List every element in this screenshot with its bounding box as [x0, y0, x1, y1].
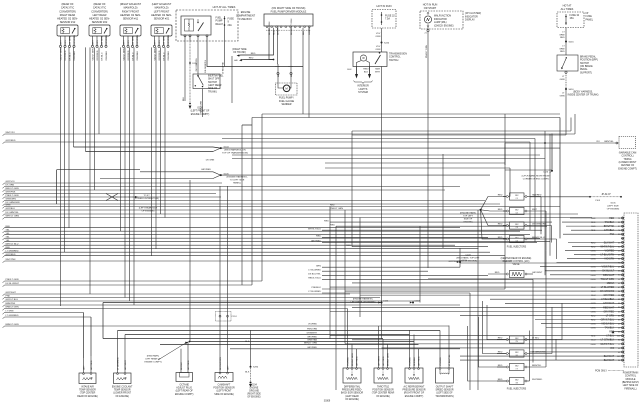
- svg-text:PRESSURE SENSOR: PRESSURE SENSOR: [403, 390, 426, 392]
- svg-text:INJ: INJ: [515, 224, 518, 226]
- svg-text:PNK/BLK: PNK/BLK: [312, 287, 322, 289]
- engine compartment fuse box (dashed): [176, 10, 238, 41]
- svg-text:TAN/BLK: TAN/BLK: [605, 327, 615, 330]
- upper-middle horizontal wire runs: [222, 114, 571, 170]
- wire LT GRN/RED with S216: [559, 28, 574, 56]
- svg-text:HEATED O2 SEN-: HEATED O2 SEN-: [57, 17, 78, 20]
- svg-text:MEDIA: MEDIA: [607, 282, 615, 285]
- module long wires down: [302, 33, 304, 114]
- svg-text:GRY/RED: GRY/RED: [97, 50, 99, 60]
- svg-text:FUEL PUMP DRIVER MODULE: FUEL PUMP DRIVER MODULE: [271, 11, 307, 14]
- svg-text:INJ: INJ: [515, 338, 518, 340]
- svg-text:20A: 20A: [228, 24, 233, 27]
- svg-text:WHT/LT BLU: WHT/LT BLU: [600, 245, 614, 248]
- svg-text:GRN: GRN: [316, 265, 321, 267]
- svg-text:LT GRN: LT GRN: [606, 314, 615, 317]
- svg-text:TO S?: TO S?: [143, 195, 150, 197]
- svg-text:RED: RED: [498, 237, 503, 239]
- svg-text:(CHECK ENGINE): (CHECK ENGINE): [434, 24, 454, 27]
- svg-text:OF ENGINE): OF ENGINE): [115, 396, 129, 398]
- svg-text:RED: RED: [498, 209, 503, 211]
- svg-text:VIO/: VIO/: [376, 33, 381, 35]
- fuel pump and fuel gauge sender: [276, 83, 298, 106]
- mid labels on long C-band wires: [330, 205, 343, 211]
- svg-text:GRY/RED: GRY/RED: [74, 34, 76, 44]
- module wire RED: [273, 28, 275, 33]
- svg-text:30309: 30309: [324, 401, 331, 403]
- svg-text:VIO/RED: VIO/RED: [604, 249, 614, 252]
- wire relay pin down right: [207, 37, 303, 67]
- svg-text:SIDE OF: SIDE OF: [464, 218, 473, 220]
- svg-text:GRN/WHT: GRN/WHT: [307, 333, 318, 335]
- svg-text:DK BLU/ORN: DK BLU/ORN: [220, 357, 222, 370]
- svg-text:RED: RED: [316, 236, 321, 238]
- svg-text:CORNER OF ENG COMPT): CORNER OF ENG COMPT): [523, 178, 550, 180]
- svg-text:(LEFT FRONT: (LEFT FRONT: [217, 391, 232, 393]
- svg-text:VIO/RED: VIO/RED: [308, 324, 317, 326]
- svg-text:TAN/LT GRN: TAN/LT GRN: [601, 278, 615, 281]
- svg-text:C103: C103: [465, 255, 471, 257]
- svg-text:GRY/RED: GRY/RED: [137, 34, 139, 44]
- svg-text:RED: RED: [609, 217, 614, 220]
- svg-text:TO LEFT SIDE: TO LEFT SIDE: [230, 180, 245, 182]
- wire crossover with splice note: [106, 194, 159, 201]
- svg-text:ENGINE): ENGINE): [464, 221, 473, 223]
- svg-text:BRN/YEL: BRN/YEL: [532, 365, 542, 367]
- svg-text:RED: RED: [330, 224, 335, 226]
- svg-text:BRN/PNK: BRN/PNK: [604, 225, 615, 228]
- svg-text:WHT/LT BLU: WHT/LT BLU: [6, 243, 19, 245]
- svg-text:VIO: VIO: [596, 141, 600, 143]
- svg-text:RED/LT BLU: RED/LT BLU: [308, 278, 321, 280]
- svg-text:GRY/RED: GRY/RED: [6, 254, 16, 256]
- svg-text:SWITCH: SWITCH: [580, 63, 589, 65]
- svg-text:OF ENGINE): OF ENGINE): [345, 399, 359, 401]
- svg-text:RED: RED: [498, 351, 503, 353]
- svg-text:GRY/BLK: GRY/BLK: [604, 229, 615, 232]
- svg-text:GRY/RED: GRY/RED: [201, 169, 211, 171]
- heated O2 sensor HO2S-2: [89, 3, 110, 60]
- svg-text:GRN/: GRN/: [559, 34, 565, 36]
- svg-text:GRY/RED: GRY/RED: [603, 310, 614, 313]
- svg-text:SWITCH: SWITCH: [389, 59, 399, 62]
- svg-text:SIDE OF ENGINE): SIDE OF ENGINE): [459, 260, 477, 262]
- svg-text:DK GRN: DK GRN: [69, 36, 71, 45]
- splice S105: [100, 160, 490, 185]
- svg-text:ENGINE COMPT): ENGINE COMPT): [144, 361, 161, 363]
- svg-text:(RIGHT EXHAUST: (RIGHT EXHAUST: [120, 3, 142, 6]
- svg-text:RED: RED: [609, 331, 614, 334]
- svg-text:RELAY: RELAY: [216, 23, 224, 26]
- svg-text:(TOP CENTER: (TOP CENTER: [80, 393, 96, 395]
- svg-text:FUSE 32: FUSE 32: [385, 15, 395, 18]
- PCM pin rows: [591, 217, 624, 362]
- svg-text:LT GRN: LT GRN: [6, 311, 14, 313]
- svg-text:GRN/ORN: GRN/ORN: [6, 199, 17, 201]
- svg-text:S104: S104: [224, 146, 230, 148]
- svg-text:LT BLU: LT BLU: [532, 337, 540, 339]
- svg-text:WHT/RED: WHT/RED: [532, 379, 543, 381]
- svg-text:INJ: INJ: [515, 379, 518, 381]
- svg-text:TOP LEFT: TOP LEFT: [463, 215, 474, 217]
- svg-text:GRY/WHT: GRY/WHT: [603, 302, 615, 305]
- svg-text:7.5A: 7.5A: [385, 18, 390, 21]
- svg-text:SYSTEM: SYSTEM: [358, 91, 368, 94]
- svg-text:THROTTLE: THROTTLE: [377, 387, 390, 389]
- svg-text:SPEED SENSOR: SPEED SENSOR: [435, 390, 453, 392]
- svg-text:GRY/RED: GRY/RED: [356, 356, 358, 366]
- svg-text:GRY/BLK: GRY/BLK: [6, 208, 16, 210]
- svg-text:(RIGHT SIDE: (RIGHT SIDE: [247, 394, 261, 396]
- svg-text:WHT: WHT: [92, 39, 94, 45]
- svg-text:VIO/RED: VIO/RED: [409, 357, 411, 366]
- engine coolant temperature sensor: [112, 331, 133, 398]
- svg-text:TRANSMISSION: TRANSMISSION: [389, 53, 407, 56]
- svg-text:SUPPORT): SUPPORT): [580, 72, 592, 74]
- svg-text:(REAR OF: (REAR OF: [61, 3, 73, 6]
- wire group top right area: [504, 143, 506, 165]
- svg-text:ENGINE: ENGINE: [241, 11, 251, 14]
- svg-text:BLK/WHT: BLK/WHT: [604, 241, 615, 244]
- fuel injector 6: [497, 350, 552, 357]
- svg-text:PNK: PNK: [6, 296, 11, 298]
- wire corner x57: [57, 170, 140, 204]
- svg-text:(ON RIGHT SIDE OF TRUNK): (ON RIGHT SIDE OF TRUNK): [272, 7, 306, 10]
- svg-text:I/P: I/P: [586, 12, 589, 15]
- svg-text:GRY/WHT: GRY/WHT: [125, 359, 127, 370]
- svg-text:BLK: BLK: [364, 71, 369, 73]
- svg-text:GRY/LT BLU: GRY/LT BLU: [6, 299, 19, 301]
- svg-text:ORN: ORN: [375, 49, 380, 51]
- svg-text:BRN/LT GRN: BRN/LT GRN: [387, 353, 389, 366]
- fuel injector 7: [497, 363, 546, 370]
- svg-text:INDICATOR: INDICATOR: [434, 18, 447, 21]
- svg-text:WHT: WHT: [154, 39, 156, 45]
- svg-text:WHT: WHT: [60, 39, 62, 45]
- svg-text:GRY/RED: GRY/RED: [418, 356, 420, 366]
- instrument cluster (dashed) with MIL: [420, 11, 481, 29]
- inline connector (dashed) near octane: [216, 312, 232, 322]
- svg-text:GRY/LT BLU: GRY/LT BLU: [601, 318, 615, 321]
- svg-text:TAN: TAN: [610, 233, 615, 236]
- wires to fuel pump: [276, 33, 294, 85]
- svg-text:S416: S416: [569, 89, 575, 91]
- svg-text:DK GRN/ORN: DK GRN/ORN: [532, 223, 546, 225]
- svg-text:BRN/WHT: BRN/WHT: [603, 274, 615, 277]
- svg-text:(LOWER FRONT: (LOWER FRONT: [619, 162, 637, 164]
- fuel injector 2: [498, 207, 546, 214]
- bottom injector feed verticals: [468, 301, 507, 381]
- svg-text:INJ: INJ: [515, 352, 518, 354]
- svg-text:DK BLU: DK BLU: [101, 52, 103, 60]
- svg-text:CONVERTER): CONVERTER): [59, 10, 76, 13]
- svg-text:C135: C135: [383, 300, 389, 302]
- svg-text:GRY/RED: GRY/RED: [65, 50, 67, 60]
- svg-text:DK GRN/YEL: DK GRN/YEL: [6, 212, 20, 214]
- svg-text:RED: RED: [346, 245, 351, 247]
- jumper above PCM: [589, 194, 622, 210]
- svg-text:FUEL GAUGE: FUEL GAUGE: [279, 100, 295, 103]
- svg-text:DK GRN/VIO: DK GRN/VIO: [600, 290, 614, 293]
- svg-text:PNK/LT GRN: PNK/LT GRN: [6, 279, 19, 281]
- svg-text:PNK/ORN: PNK/ORN: [307, 329, 317, 331]
- a/c refrigerant pressure sensor: [403, 330, 426, 398]
- svg-text:PANEL: PANEL: [586, 18, 594, 21]
- svg-text:TEMP SENSOR: TEMP SENSOR: [114, 390, 131, 392]
- svg-text:COMPARTMENT: COMPARTMENT: [236, 14, 256, 17]
- svg-text:GRY/RED: GRY/RED: [307, 337, 317, 339]
- svg-text:INJ: INJ: [515, 209, 518, 211]
- svg-text:GRY/RED: GRY/RED: [307, 347, 317, 349]
- svg-text:LT GRN/RED: LT GRN/RED: [6, 315, 19, 317]
- svg-text:LT BLU/YEL: LT BLU/YEL: [449, 354, 451, 366]
- svg-text:GROUND: GROUND: [249, 391, 259, 393]
- svg-text:(LEFT SIDE OF: (LEFT SIDE OF: [436, 393, 453, 395]
- svg-text:OF ENGINE): OF ENGINE): [142, 211, 155, 213]
- svg-text:BLK/WHT: BLK/WHT: [604, 359, 615, 362]
- svg-text:GRY/RED: GRY/RED: [188, 360, 190, 370]
- svg-text:BRN/LT BLU: BRN/LT BLU: [532, 237, 545, 239]
- svg-text:CONTROL: CONTROL: [625, 376, 637, 378]
- svg-text:G105: G105: [610, 203, 616, 205]
- svg-text:LT BLU/PNK: LT BLU/PNK: [222, 61, 224, 73]
- svg-text:INSIDE CENTER OF TRUNK): INSIDE CENTER OF TRUNK): [568, 95, 599, 97]
- svg-text:LEFT REAR: LEFT REAR: [93, 14, 107, 17]
- svg-text:DK GRN: DK GRN: [206, 160, 215, 162]
- svg-text:GRY/RED: GRY/RED: [383, 356, 385, 366]
- inline connector markers C-row: [351, 212, 481, 304]
- octane adjust plug: [175, 342, 194, 396]
- svg-text:SWITCH: SWITCH: [208, 82, 217, 84]
- svg-text:BRN/LT GRN: BRN/LT GRN: [6, 307, 19, 309]
- camshaft position sensor: [213, 357, 235, 396]
- wire from IFS down: [202, 89, 204, 118]
- svg-text:WHT/LT BLU: WHT/LT BLU: [308, 228, 321, 230]
- svg-text:RED: RED: [498, 379, 503, 381]
- svg-text:PRESSURE FEED-: PRESSURE FEED-: [342, 390, 362, 392]
- svg-text:OF TRUNK): OF TRUNK): [233, 51, 246, 54]
- svg-text:BLK: BLK: [245, 372, 250, 374]
- svg-text:(RIGHT FRONT OF: (RIGHT FRONT OF: [404, 393, 425, 395]
- svg-text:(LOWER FRONT: (LOWER FRONT: [113, 393, 131, 395]
- svg-text:VIO/GRN: VIO/GRN: [604, 258, 614, 261]
- splice S104: [74, 146, 561, 154]
- svg-text:RIGHT FRONT: RIGHT FRONT: [122, 10, 140, 13]
- svg-text:RED: RED: [251, 53, 256, 55]
- svg-text:INJ: INJ: [515, 365, 518, 367]
- svg-text:BRN/YEL: BRN/YEL: [604, 141, 614, 143]
- svg-text:BRN/LT GRN: BRN/LT GRN: [304, 343, 317, 345]
- svg-text:OR START: OR START: [424, 7, 437, 10]
- svg-text:GRY: GRY: [159, 40, 161, 45]
- idle air control valve: [488, 257, 543, 278]
- svg-text:INJ: INJ: [515, 195, 518, 197]
- svg-text:ENGINE COMPT): ENGINE COMPT): [175, 394, 194, 396]
- svg-text:GRY/WHT: GRY/WHT: [532, 272, 543, 274]
- svg-text:GRY/RED: GRY/RED: [6, 140, 16, 142]
- svg-text:ENGINE: ENGINE: [250, 388, 259, 390]
- svg-text:PNK/LT GRN: PNK/LT GRN: [426, 45, 428, 58]
- svg-text:DK BLU/WHT: DK BLU/WHT: [6, 283, 20, 285]
- svg-text:TIMING: TIMING: [623, 159, 631, 161]
- svg-text:FUEL PUMP /: FUEL PUMP /: [279, 97, 294, 100]
- svg-text:LIGHTS: LIGHTS: [359, 88, 368, 91]
- svg-text:PCM ONLY: PCM ONLY: [595, 370, 607, 372]
- svg-text:S216: S216: [569, 41, 575, 43]
- variable camshaft timing solenoid (dashed): [618, 137, 637, 171]
- svg-text:C137: C137: [415, 300, 421, 302]
- svg-text:TAN/BLK: TAN/BLK: [605, 221, 615, 224]
- svg-text:WHT/LT BLU: WHT/LT BLU: [600, 343, 614, 346]
- svg-text:WHT: WHT: [123, 39, 125, 45]
- svg-text:SENSOR #21: SENSOR #21: [154, 17, 170, 20]
- inertia fuel shutoff switch: [193, 74, 224, 93]
- svg-text:MANIFOLD): MANIFOLD): [124, 7, 138, 10]
- svg-text:INDICATOR: INDICATOR: [465, 15, 478, 18]
- fuse 7.5A (dashed box): [372, 10, 396, 29]
- wires into PCM pins: [330, 218, 621, 360]
- svg-text:GRY: GRY: [83, 365, 85, 370]
- svg-text:GRN/: GRN/: [559, 48, 565, 50]
- svg-text:PNK/LT GRN: PNK/LT GRN: [330, 208, 343, 210]
- module wire GRN/VIO: [308, 28, 310, 33]
- wire fuse down: [224, 28, 226, 67]
- junction marker on RED row: [612, 331, 615, 334]
- svg-text:TEMP SENSOR: TEMP SENSOR: [79, 390, 96, 392]
- svg-text:DISPLAY: DISPLAY: [465, 19, 475, 22]
- svg-text:CONVERTER): CONVERTER): [91, 10, 108, 13]
- svg-text:RED: RED: [498, 194, 503, 196]
- svg-text:(POWER DISTRIBUTION): (POWER DISTRIBUTION): [134, 198, 159, 200]
- svg-text:RED/LT GRN: RED/LT GRN: [6, 188, 19, 190]
- svg-text:GRY/RED: GRY/RED: [311, 241, 321, 243]
- svg-text:ENGINE COMPT): ENGINE COMPT): [618, 168, 637, 170]
- svg-text:GRY: GRY: [97, 40, 99, 45]
- svg-text:VIO/RED: VIO/RED: [347, 357, 349, 366]
- wire BLK relay pin: [183, 37, 185, 101]
- connector C/PLR note: [522, 170, 553, 181]
- svg-text:FUEL INJECTORS: FUEL INJECTORS: [507, 389, 527, 391]
- svg-text:LT BLU/RED: LT BLU/RED: [308, 291, 321, 293]
- svg-text:GRY/PNK: GRY/PNK: [6, 192, 16, 194]
- wire RED to right side of trunk arrow: [232, 33, 274, 62]
- svg-text:GRN: GRN: [560, 79, 565, 81]
- module wire BLK: [302, 28, 304, 33]
- svg-text:LT GRN/ORN: LT GRN/ORN: [532, 351, 546, 353]
- svg-text:WHT: WHT: [375, 71, 381, 73]
- svg-text:OF ENGINE): OF ENGINE): [247, 397, 260, 399]
- svg-text:(LEFT EXHAUST: (LEFT EXHAUST: [152, 3, 172, 6]
- svg-text:BRN/LT GRN: BRN/LT GRN: [352, 353, 354, 366]
- svg-text:(REAR OF: (REAR OF: [93, 3, 105, 6]
- svg-text:SIDE OF ENGINE): SIDE OF ENGINE): [214, 394, 234, 396]
- svg-text:G104: G104: [251, 385, 257, 387]
- svg-text:BLK: BLK: [183, 96, 185, 101]
- svg-text:GRY/VIO: GRY/VIO: [6, 181, 15, 183]
- svg-text:OF ENGINE): OF ENGINE): [376, 396, 390, 398]
- I/P fuse panel (dashed) fuse 32: [557, 12, 594, 28]
- svg-text:LT BLU/RED: LT BLU/RED: [601, 286, 615, 289]
- G104 engine ground: [245, 330, 261, 399]
- wire feeding jumper: [530, 196, 590, 198]
- svg-text:DK GRN: DK GRN: [101, 36, 103, 45]
- wire LT GRN to S416: [560, 71, 599, 135]
- svg-text:RED: RED: [324, 220, 329, 222]
- fuel injector 5: [497, 336, 562, 343]
- arrows to interior light system: [347, 67, 372, 95]
- long vertical wire runs: [190, 56, 575, 390]
- svg-text:LEFT SIDE OF: LEFT SIDE OF: [623, 385, 639, 387]
- fuel injector 4: [498, 235, 557, 242]
- svg-text:S294: S294: [253, 367, 259, 369]
- svg-text:RED/WHT: RED/WHT: [603, 306, 615, 309]
- svg-text:DK BLU/YEL: DK BLU/YEL: [308, 274, 321, 276]
- svg-text:VIO: VIO: [610, 347, 614, 350]
- svg-text:SIDE OF: SIDE OF: [208, 88, 218, 90]
- svg-text:GRY: GRY: [128, 40, 130, 45]
- svg-text:DK BLU/ORN: DK BLU/ORN: [269, 21, 271, 35]
- wire to G100 ground: [189, 37, 210, 116]
- svg-text:HEATED O2 SEN-: HEATED O2 SEN-: [151, 14, 172, 17]
- wire to VCT solenoid: [505, 141, 619, 144]
- svg-text:FUEL: FUEL: [216, 17, 223, 20]
- svg-text:RED: RED: [498, 365, 503, 367]
- fuse 9 20A: [224, 16, 235, 28]
- injector output verticals: [530, 197, 563, 382]
- PCM ONLY note: [595, 370, 624, 372]
- svg-text:GRY/RED: GRY/RED: [106, 34, 108, 44]
- svg-text:DK GRN: DK GRN: [6, 185, 15, 187]
- svg-text:DK GRN: DK GRN: [132, 36, 134, 45]
- wires from O2 sensors down: [61, 47, 166, 306]
- corner connections: [552, 118, 560, 239]
- svg-text:LEFT FRONT: LEFT FRONT: [154, 10, 170, 13]
- svg-text:BLK/WHT: BLK/WHT: [604, 355, 615, 358]
- transmission control switch: [353, 52, 407, 67]
- svg-text:GRY/RED: GRY/RED: [168, 34, 170, 44]
- svg-text:ORN/BLK: ORN/BLK: [74, 50, 76, 60]
- svg-text:DK BLU: DK BLU: [69, 52, 71, 60]
- svg-text:RED/: RED/: [363, 69, 369, 71]
- svg-text:ORN/BLK: ORN/BLK: [106, 50, 108, 60]
- svg-text:DK GRN/YEL: DK GRN/YEL: [196, 57, 198, 71]
- svg-text:15A: 15A: [570, 17, 575, 20]
- svg-text:LT GRN/BLK: LT GRN/BLK: [601, 339, 615, 342]
- svg-text:C124: C124: [232, 316, 238, 318]
- svg-text:VIO/: VIO/: [376, 46, 381, 48]
- svg-text:ORN/BLK: ORN/BLK: [137, 50, 139, 60]
- svg-text:RED: RED: [495, 272, 500, 274]
- intake air temperature sensor: [77, 313, 98, 398]
- mid wire runs to right: [308, 220, 621, 293]
- svg-text:(I/P CLUSTER): (I/P CLUSTER): [465, 12, 481, 15]
- svg-text:CATALYTIC: CATALYTIC: [93, 7, 106, 10]
- svg-text:BRN/LT GRN: BRN/LT GRN: [6, 324, 19, 326]
- svg-text:SENSOR #22: SENSOR #22: [92, 21, 108, 24]
- svg-text:BLK: BLK: [347, 69, 352, 71]
- svg-text:OF ENGINE): OF ENGINE): [607, 208, 620, 210]
- svg-text:RED: RED: [330, 205, 335, 207]
- svg-text:POSITION SENSOR: POSITION SENSOR: [213, 388, 235, 390]
- svg-text:WHT: WHT: [532, 209, 538, 211]
- svg-text:ENGINE COMPT): ENGINE COMPT): [405, 396, 424, 398]
- svg-text:GRY: GRY: [227, 365, 229, 370]
- svg-text:LAMP (MIL): LAMP (MIL): [434, 21, 447, 24]
- svg-text:LT GRN/RED: LT GRN/RED: [6, 250, 19, 252]
- svg-text:LT BLU/RED: LT BLU/RED: [308, 269, 321, 271]
- svg-text:BLK: BLK: [245, 341, 250, 343]
- svg-text:FUSE: FUSE: [586, 15, 593, 18]
